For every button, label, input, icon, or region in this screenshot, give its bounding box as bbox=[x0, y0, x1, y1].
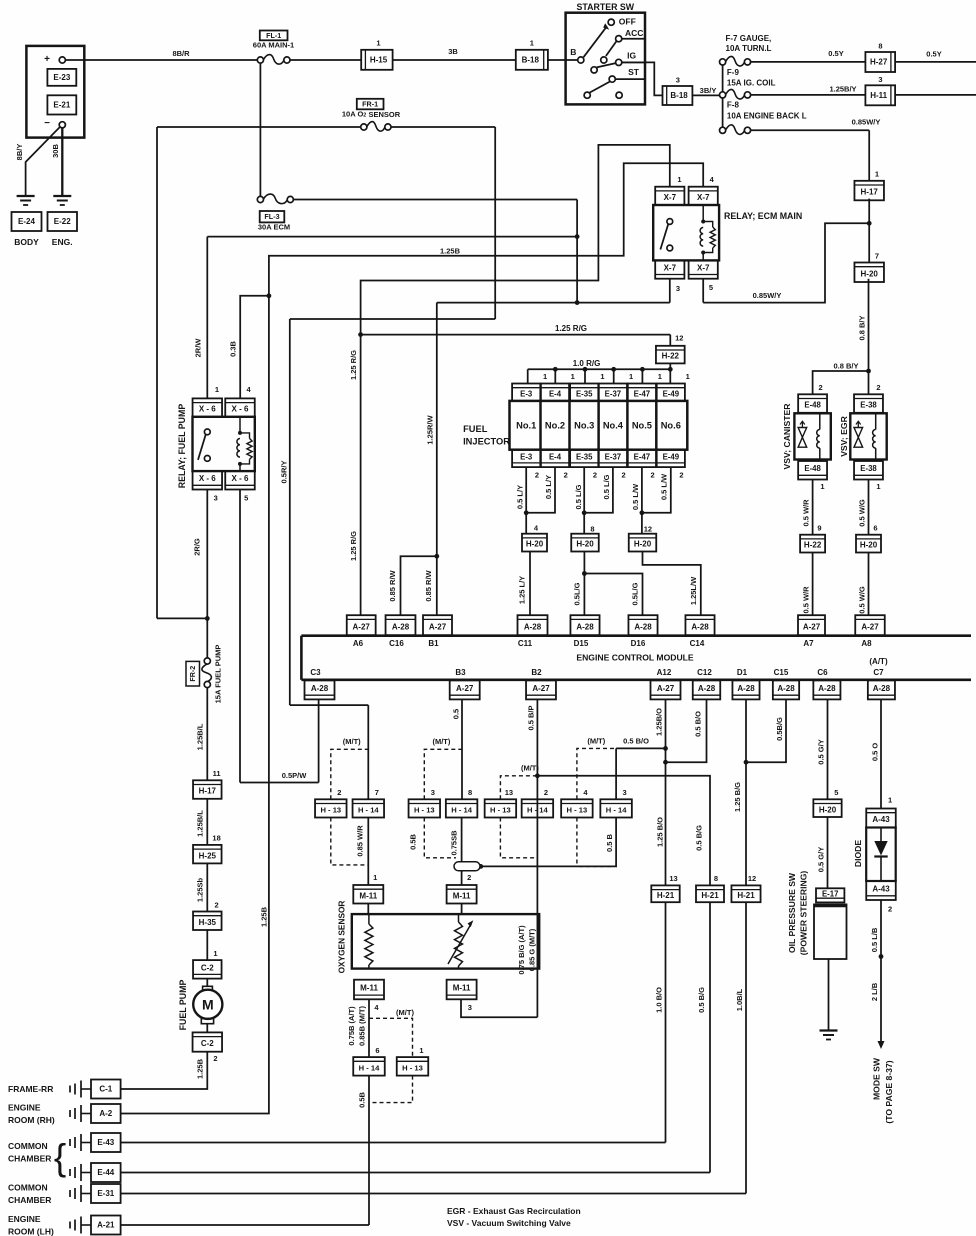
svg-text:FUEL: FUEL bbox=[463, 424, 488, 434]
svg-text:H-11: H-11 bbox=[870, 91, 887, 100]
svg-text:E-17: E-17 bbox=[822, 889, 838, 898]
svg-text:1.25B/L: 1.25B/L bbox=[195, 810, 204, 837]
svg-text:A-43: A-43 bbox=[872, 815, 890, 824]
svg-text:DIODE: DIODE bbox=[853, 840, 863, 867]
svg-text:H-21: H-21 bbox=[737, 891, 755, 900]
svg-text:6: 6 bbox=[375, 1046, 379, 1055]
svg-text:0.5 B/G: 0.5 B/G bbox=[695, 825, 704, 851]
svg-text:(POWER STEERING): (POWER STEERING) bbox=[799, 871, 809, 956]
svg-text:F-9: F-9 bbox=[727, 68, 740, 77]
svg-text:E-48: E-48 bbox=[804, 401, 821, 410]
svg-text:0.85 G (M/T): 0.85 G (M/T) bbox=[527, 928, 536, 971]
svg-text:{: { bbox=[54, 1137, 66, 1178]
svg-text:INJECTOR: INJECTOR bbox=[463, 436, 510, 446]
svg-text:ST: ST bbox=[628, 67, 640, 77]
svg-text:H - 14: H - 14 bbox=[606, 806, 627, 815]
svg-text:7: 7 bbox=[875, 252, 879, 261]
svg-text:E-22: E-22 bbox=[54, 217, 71, 226]
svg-text:H-17: H-17 bbox=[861, 188, 879, 197]
svg-text:12: 12 bbox=[675, 334, 683, 343]
svg-text:H - 14: H - 14 bbox=[527, 806, 548, 815]
svg-text:H - 13: H - 13 bbox=[490, 806, 511, 815]
svg-text:+: + bbox=[44, 54, 50, 65]
svg-text:E-43: E-43 bbox=[97, 1138, 114, 1147]
svg-text:C7: C7 bbox=[873, 668, 884, 677]
svg-text:60A MAIN-1: 60A MAIN-1 bbox=[253, 41, 294, 50]
svg-text:A-27: A-27 bbox=[861, 622, 879, 631]
svg-text:E-49: E-49 bbox=[663, 389, 680, 398]
svg-text:2: 2 bbox=[593, 471, 597, 480]
svg-text:5: 5 bbox=[244, 493, 248, 502]
svg-text:C3: C3 bbox=[310, 668, 321, 677]
svg-text:COMMON: COMMON bbox=[8, 1141, 48, 1151]
svg-text:0.75SB: 0.75SB bbox=[450, 830, 459, 856]
svg-text:1.0 B/O: 1.0 B/O bbox=[655, 987, 664, 1013]
svg-text:0.5 W/G: 0.5 W/G bbox=[858, 586, 867, 614]
svg-text:B-18: B-18 bbox=[670, 91, 688, 100]
svg-text:1: 1 bbox=[629, 372, 633, 381]
svg-text:B3: B3 bbox=[455, 668, 466, 677]
svg-text:0.5 B: 0.5 B bbox=[605, 833, 614, 852]
svg-text:2: 2 bbox=[535, 471, 539, 480]
svg-text:6: 6 bbox=[873, 524, 877, 533]
svg-text:0.5 L/W: 0.5 L/W bbox=[631, 483, 640, 510]
svg-text:0.85B (M/T): 0.85B (M/T) bbox=[357, 1006, 366, 1047]
svg-text:No.4: No.4 bbox=[603, 420, 624, 430]
svg-text:ENG.: ENG. bbox=[52, 237, 73, 247]
svg-text:2: 2 bbox=[337, 788, 341, 797]
svg-text:0.85 W/R: 0.85 W/R bbox=[356, 825, 365, 857]
svg-text:3: 3 bbox=[676, 76, 680, 85]
svg-text:1.25 R/G: 1.25 R/G bbox=[349, 350, 358, 380]
svg-text:H-20: H-20 bbox=[526, 540, 544, 549]
svg-text:1: 1 bbox=[215, 385, 219, 394]
svg-text:H-21: H-21 bbox=[701, 891, 719, 900]
svg-text:7: 7 bbox=[375, 788, 379, 797]
svg-text:A-28: A-28 bbox=[873, 684, 891, 693]
svg-text:C11: C11 bbox=[518, 639, 533, 648]
svg-text:13: 13 bbox=[669, 874, 677, 883]
svg-text:(TO PAGE 8-37): (TO PAGE 8-37) bbox=[884, 1060, 894, 1123]
svg-text:12: 12 bbox=[748, 874, 756, 883]
svg-text:MODE SW: MODE SW bbox=[872, 1057, 882, 1100]
svg-text:1.25 L/Y: 1.25 L/Y bbox=[518, 576, 527, 604]
svg-text:H - 13: H - 13 bbox=[567, 806, 588, 815]
svg-text:8: 8 bbox=[590, 524, 594, 533]
svg-text:M: M bbox=[202, 997, 214, 1013]
svg-text:E-4: E-4 bbox=[549, 389, 562, 398]
svg-text:A-28: A-28 bbox=[576, 622, 594, 631]
svg-text:30B: 30B bbox=[51, 144, 60, 158]
svg-text:0.5B: 0.5B bbox=[358, 1091, 367, 1107]
svg-text:3: 3 bbox=[431, 788, 435, 797]
svg-text:A-27: A-27 bbox=[532, 684, 550, 693]
svg-text:E-48: E-48 bbox=[804, 464, 821, 473]
svg-text:B1: B1 bbox=[428, 639, 439, 648]
svg-text:5: 5 bbox=[709, 283, 713, 292]
svg-text:E-37: E-37 bbox=[605, 452, 621, 461]
svg-text:0.5L/G: 0.5L/G bbox=[631, 582, 640, 605]
svg-text:0.5Y: 0.5Y bbox=[926, 50, 941, 59]
svg-text:H-21: H-21 bbox=[657, 891, 675, 900]
svg-text:0.5 B/P: 0.5 B/P bbox=[527, 705, 536, 730]
svg-text:A-28: A-28 bbox=[311, 684, 329, 693]
svg-text:FL-3: FL-3 bbox=[264, 212, 279, 221]
svg-text:11: 11 bbox=[213, 769, 221, 778]
svg-text:E-24: E-24 bbox=[18, 217, 35, 226]
svg-text:5: 5 bbox=[834, 788, 838, 797]
svg-text:C-1: C-1 bbox=[99, 1085, 112, 1094]
svg-text:H - 13: H - 13 bbox=[414, 806, 435, 815]
svg-text:1: 1 bbox=[875, 170, 879, 179]
svg-text:A-21: A-21 bbox=[97, 1221, 115, 1230]
svg-text:8: 8 bbox=[878, 42, 882, 51]
svg-text:OFF: OFF bbox=[619, 16, 636, 26]
svg-text:H-22: H-22 bbox=[662, 352, 680, 361]
svg-text:IG: IG bbox=[627, 51, 636, 61]
svg-text:A-43: A-43 bbox=[872, 884, 890, 893]
svg-text:2: 2 bbox=[679, 471, 683, 480]
svg-text:B-18: B-18 bbox=[522, 55, 540, 64]
svg-text:1.25B/L: 1.25B/L bbox=[195, 723, 204, 750]
svg-text:M-11: M-11 bbox=[453, 891, 471, 900]
svg-text:RELAY; FUEL PUMP: RELAY; FUEL PUMP bbox=[177, 404, 187, 489]
svg-text:0.5 G/Y: 0.5 G/Y bbox=[816, 847, 825, 872]
svg-text:2: 2 bbox=[876, 383, 880, 392]
svg-text:A-28: A-28 bbox=[691, 622, 709, 631]
svg-text:0.5 B/G: 0.5 B/G bbox=[697, 987, 706, 1013]
svg-text:M-11: M-11 bbox=[360, 983, 378, 992]
svg-text:0.5R/Y: 0.5R/Y bbox=[280, 461, 289, 484]
svg-text:A7: A7 bbox=[803, 639, 814, 648]
svg-text:0.5 O: 0.5 O bbox=[870, 743, 879, 762]
svg-text:0.5 L/W: 0.5 L/W bbox=[660, 473, 669, 500]
svg-text:H - 13: H - 13 bbox=[402, 1063, 423, 1072]
svg-text:2: 2 bbox=[544, 788, 548, 797]
svg-text:1.25B/Y: 1.25B/Y bbox=[829, 84, 856, 93]
svg-text:A-27: A-27 bbox=[803, 622, 821, 631]
svg-text:C12: C12 bbox=[697, 668, 712, 677]
svg-text:EGR - Exhaust Gas Recirculatio: EGR - Exhaust Gas Recirculation bbox=[447, 1206, 581, 1216]
svg-text:15A IG. COIL: 15A IG. COIL bbox=[727, 79, 776, 88]
svg-text:E-3: E-3 bbox=[520, 389, 533, 398]
svg-text:(M/T): (M/T) bbox=[343, 737, 361, 746]
svg-text:E-31: E-31 bbox=[97, 1189, 114, 1198]
svg-text:0.5 W/G: 0.5 W/G bbox=[858, 499, 867, 527]
svg-text:18: 18 bbox=[212, 834, 220, 843]
svg-text:M-11: M-11 bbox=[359, 891, 377, 900]
svg-text:2: 2 bbox=[213, 1054, 217, 1063]
svg-text:0.3B: 0.3B bbox=[229, 340, 238, 356]
svg-text:1.25B: 1.25B bbox=[440, 247, 461, 256]
svg-text:D1: D1 bbox=[737, 668, 748, 677]
svg-text:STARTER SW: STARTER SW bbox=[577, 2, 635, 12]
svg-text:C-2: C-2 bbox=[201, 963, 214, 972]
svg-text:VSV - Vacuum Switching Valve: VSV - Vacuum Switching Valve bbox=[447, 1218, 571, 1228]
svg-text:0.5B: 0.5B bbox=[409, 833, 418, 849]
svg-text:0.5 B/O: 0.5 B/O bbox=[623, 737, 649, 746]
svg-text:3: 3 bbox=[468, 1003, 472, 1012]
svg-text:B: B bbox=[570, 47, 576, 57]
svg-text:X-7: X-7 bbox=[697, 193, 710, 202]
svg-text:H-27: H-27 bbox=[870, 58, 888, 67]
svg-text:OXYGEN SENSOR: OXYGEN SENSOR bbox=[337, 901, 347, 974]
svg-text:(M/T): (M/T) bbox=[587, 737, 605, 746]
svg-text:1.25B: 1.25B bbox=[195, 1058, 204, 1079]
svg-text:No.5: No.5 bbox=[632, 420, 652, 430]
svg-text:1.25B: 1.25B bbox=[260, 906, 269, 927]
svg-text:No.2: No.2 bbox=[545, 420, 565, 430]
svg-text:(M/T): (M/T) bbox=[521, 764, 539, 773]
svg-text:H - 14: H - 14 bbox=[359, 1063, 380, 1072]
svg-text:X - 6: X - 6 bbox=[199, 405, 216, 414]
svg-text:H-15: H-15 bbox=[370, 55, 388, 64]
svg-text:A-2: A-2 bbox=[99, 1109, 112, 1118]
svg-text:1.25B/O: 1.25B/O bbox=[655, 708, 664, 736]
svg-text:X-7: X-7 bbox=[697, 263, 710, 272]
svg-text:ENGINE CONTROL MODULE: ENGINE CONTROL MODULE bbox=[576, 653, 694, 663]
svg-text:8B/R: 8B/R bbox=[172, 49, 190, 58]
svg-text:X - 6: X - 6 bbox=[232, 405, 249, 414]
svg-text:H-20: H-20 bbox=[634, 540, 652, 549]
svg-text:0.5 B/O: 0.5 B/O bbox=[694, 711, 703, 737]
svg-text:8: 8 bbox=[468, 788, 472, 797]
svg-text:1.25R/W: 1.25R/W bbox=[426, 414, 435, 444]
svg-text:RELAY; ECM MAIN: RELAY; ECM MAIN bbox=[724, 211, 802, 221]
svg-text:No.6: No.6 bbox=[661, 420, 681, 430]
svg-text:2: 2 bbox=[467, 873, 471, 882]
svg-text:H-35: H-35 bbox=[199, 918, 217, 927]
svg-text:0.5 L/G: 0.5 L/G bbox=[602, 474, 611, 499]
svg-text:2R/W: 2R/W bbox=[194, 338, 203, 358]
svg-text:0.5 L/Y: 0.5 L/Y bbox=[544, 475, 553, 499]
svg-text:E-47: E-47 bbox=[634, 452, 650, 461]
svg-text:9: 9 bbox=[817, 524, 821, 533]
svg-text:0.5B/G: 0.5B/G bbox=[775, 717, 784, 741]
svg-text:1: 1 bbox=[820, 482, 824, 491]
svg-text:COMMON: COMMON bbox=[8, 1183, 48, 1193]
svg-text:FRAME-RR: FRAME-RR bbox=[8, 1084, 53, 1094]
svg-text:F-7 GAUGE,: F-7 GAUGE, bbox=[726, 34, 772, 43]
svg-text:10A TURN.L: 10A TURN.L bbox=[726, 44, 772, 53]
svg-text:FUEL PUMP: FUEL PUMP bbox=[178, 980, 188, 1031]
svg-text:C-2: C-2 bbox=[201, 1039, 214, 1048]
svg-text:A-27: A-27 bbox=[657, 684, 675, 693]
svg-text:3B: 3B bbox=[448, 47, 458, 56]
svg-text:0.5 G/Y: 0.5 G/Y bbox=[816, 739, 825, 764]
svg-text:(M/T): (M/T) bbox=[396, 1008, 414, 1017]
svg-text:E-3: E-3 bbox=[520, 452, 533, 461]
svg-text:0.75 B/G (A/T): 0.75 B/G (A/T) bbox=[517, 925, 526, 975]
svg-text:C6: C6 bbox=[817, 668, 828, 677]
svg-text:H-20: H-20 bbox=[861, 269, 879, 278]
svg-text:1.0 R/G: 1.0 R/G bbox=[573, 359, 601, 368]
svg-text:ROOM (LH): ROOM (LH) bbox=[8, 1227, 54, 1236]
svg-text:0.85 R/W: 0.85 R/W bbox=[424, 569, 433, 601]
svg-text:E-38: E-38 bbox=[860, 401, 877, 410]
svg-text:2: 2 bbox=[564, 471, 568, 480]
svg-text:A-28: A-28 bbox=[737, 684, 755, 693]
svg-text:10A O2 SENSOR: 10A O2 SENSOR bbox=[342, 109, 401, 118]
svg-text:1: 1 bbox=[213, 949, 217, 958]
svg-text:30A ECM: 30A ECM bbox=[258, 223, 290, 232]
svg-text:FR-1: FR-1 bbox=[362, 100, 378, 109]
svg-text:1: 1 bbox=[600, 372, 604, 381]
svg-text:0.5 W/R: 0.5 W/R bbox=[802, 586, 811, 614]
svg-text:No.3: No.3 bbox=[574, 420, 594, 430]
svg-text:A-28: A-28 bbox=[524, 622, 542, 631]
svg-text:A6: A6 bbox=[353, 639, 364, 648]
svg-text:ROOM (RH): ROOM (RH) bbox=[8, 1115, 55, 1125]
svg-text:1: 1 bbox=[876, 482, 880, 491]
svg-text:0.5 L/Y: 0.5 L/Y bbox=[515, 485, 524, 509]
svg-text:X-7: X-7 bbox=[664, 193, 677, 202]
svg-text:E-44: E-44 bbox=[97, 1168, 114, 1177]
svg-text:0.5L/G: 0.5L/G bbox=[573, 582, 582, 605]
svg-text:H - 13: H - 13 bbox=[320, 806, 341, 815]
svg-text:X-7: X-7 bbox=[664, 263, 677, 272]
svg-text:1: 1 bbox=[530, 39, 534, 48]
svg-text:(A/T): (A/T) bbox=[869, 657, 888, 666]
svg-text:0.5 L/B: 0.5 L/B bbox=[870, 927, 879, 952]
svg-text:1: 1 bbox=[419, 1046, 423, 1055]
svg-text:8: 8 bbox=[714, 874, 718, 883]
svg-text:H-22: H-22 bbox=[804, 541, 822, 550]
svg-text:1.25Sb: 1.25Sb bbox=[195, 877, 204, 902]
svg-text:H - 14: H - 14 bbox=[358, 806, 379, 815]
svg-text:H-25: H-25 bbox=[199, 851, 217, 860]
svg-text:E-4: E-4 bbox=[549, 452, 562, 461]
svg-text:2: 2 bbox=[622, 471, 626, 480]
svg-text:E-47: E-47 bbox=[634, 389, 650, 398]
svg-text:A-28: A-28 bbox=[392, 622, 410, 631]
svg-text:2: 2 bbox=[888, 904, 892, 913]
svg-text:0.85W/Y: 0.85W/Y bbox=[753, 291, 782, 300]
svg-text:1.25 R/G: 1.25 R/G bbox=[555, 324, 587, 333]
svg-text:0.5 W/R: 0.5 W/R bbox=[802, 499, 811, 527]
svg-text:E-35: E-35 bbox=[576, 452, 593, 461]
svg-text:(M/T): (M/T) bbox=[432, 737, 450, 746]
svg-text:ENGINE: ENGINE bbox=[8, 1103, 41, 1113]
svg-text:C15: C15 bbox=[774, 668, 789, 677]
svg-text:X - 6: X - 6 bbox=[232, 474, 249, 483]
svg-text:1.25L/W: 1.25L/W bbox=[689, 576, 698, 605]
svg-text:X - 6: X - 6 bbox=[199, 474, 216, 483]
svg-text:1: 1 bbox=[373, 873, 377, 882]
svg-text:3: 3 bbox=[623, 788, 627, 797]
svg-text:OIL PRESSURE SW: OIL PRESSURE SW bbox=[787, 872, 797, 953]
svg-text:E-37: E-37 bbox=[605, 389, 621, 398]
svg-text:A-28: A-28 bbox=[698, 684, 716, 693]
svg-text:A12: A12 bbox=[657, 668, 672, 677]
svg-text:−: − bbox=[44, 118, 50, 129]
svg-text:1: 1 bbox=[571, 372, 575, 381]
svg-text:0.5: 0.5 bbox=[452, 709, 461, 719]
svg-text:0.8 B/Y: 0.8 B/Y bbox=[858, 315, 867, 340]
svg-text:10A ENGINE BACK L: 10A ENGINE BACK L bbox=[727, 112, 807, 121]
svg-text:2: 2 bbox=[651, 471, 655, 480]
svg-text:1.25 R/G: 1.25 R/G bbox=[349, 531, 358, 561]
svg-text:1: 1 bbox=[543, 372, 547, 381]
svg-text:2 L/B: 2 L/B bbox=[870, 982, 879, 1001]
svg-text:0.75B (A/T): 0.75B (A/T) bbox=[347, 1006, 356, 1046]
svg-text:0.8 B/Y: 0.8 B/Y bbox=[833, 362, 858, 371]
svg-text:H - 14: H - 14 bbox=[451, 806, 472, 815]
svg-text:1: 1 bbox=[677, 175, 681, 184]
svg-text:0.5P/W: 0.5P/W bbox=[282, 771, 308, 780]
svg-text:0.85W/Y: 0.85W/Y bbox=[852, 117, 881, 126]
svg-text:F-8: F-8 bbox=[727, 101, 740, 110]
svg-text:CHAMBER: CHAMBER bbox=[8, 1154, 51, 1164]
svg-text:H-17: H-17 bbox=[199, 787, 217, 796]
svg-text:No.1: No.1 bbox=[516, 420, 536, 430]
svg-text:3B/Y: 3B/Y bbox=[700, 86, 717, 95]
svg-text:13: 13 bbox=[505, 788, 513, 797]
svg-text:A-28: A-28 bbox=[634, 622, 652, 631]
svg-text:1: 1 bbox=[686, 372, 690, 381]
svg-text:E-38: E-38 bbox=[860, 464, 877, 473]
svg-text:1: 1 bbox=[376, 39, 380, 48]
svg-text:BODY: BODY bbox=[14, 237, 39, 247]
svg-text:1: 1 bbox=[888, 795, 892, 804]
svg-text:0.5 L/G: 0.5 L/G bbox=[574, 484, 583, 509]
svg-text:E-49: E-49 bbox=[663, 452, 680, 461]
svg-text:CHAMBER: CHAMBER bbox=[8, 1195, 51, 1205]
svg-text:D16: D16 bbox=[631, 639, 646, 648]
svg-text:C14: C14 bbox=[690, 639, 705, 648]
svg-text:3: 3 bbox=[878, 75, 882, 84]
svg-text:D15: D15 bbox=[574, 639, 589, 648]
svg-text:A-27: A-27 bbox=[429, 622, 447, 631]
svg-text:FL-1: FL-1 bbox=[266, 31, 281, 40]
svg-text:3: 3 bbox=[214, 493, 218, 502]
svg-text:M-11: M-11 bbox=[453, 983, 471, 992]
svg-text:12: 12 bbox=[644, 524, 652, 533]
svg-text:1.0B/L: 1.0B/L bbox=[735, 988, 744, 1011]
svg-text:B2: B2 bbox=[531, 668, 542, 677]
svg-text:VSV; CANISTER: VSV; CANISTER bbox=[782, 403, 792, 470]
svg-text:1.25 B/O: 1.25 B/O bbox=[656, 817, 665, 847]
svg-text:8B/Y: 8B/Y bbox=[15, 144, 24, 161]
svg-text:E-23: E-23 bbox=[53, 73, 70, 82]
svg-text:FR-2: FR-2 bbox=[188, 666, 197, 682]
svg-text:H-20: H-20 bbox=[576, 540, 594, 549]
svg-text:A-27: A-27 bbox=[456, 684, 474, 693]
svg-text:H-20: H-20 bbox=[819, 805, 837, 814]
svg-text:2R/G: 2R/G bbox=[192, 538, 201, 556]
svg-text:ACC: ACC bbox=[625, 28, 643, 38]
svg-text:0.85 R/W: 0.85 R/W bbox=[388, 569, 397, 601]
svg-text:1: 1 bbox=[658, 372, 662, 381]
svg-text:A-28: A-28 bbox=[777, 684, 795, 693]
svg-text:15A FUEL PUMP: 15A FUEL PUMP bbox=[214, 645, 223, 704]
svg-text:A8: A8 bbox=[861, 639, 872, 648]
svg-text:E-35: E-35 bbox=[576, 389, 593, 398]
svg-text:A-27: A-27 bbox=[353, 622, 371, 631]
svg-text:1.25 B/G: 1.25 B/G bbox=[733, 782, 742, 812]
svg-text:2: 2 bbox=[819, 383, 823, 392]
svg-text:H-20: H-20 bbox=[860, 541, 878, 550]
svg-text:E-21: E-21 bbox=[53, 100, 70, 109]
svg-text:2: 2 bbox=[215, 900, 219, 909]
svg-text:C16: C16 bbox=[389, 639, 404, 648]
svg-text:VSV; EGR: VSV; EGR bbox=[839, 415, 849, 456]
svg-text:0.5Y: 0.5Y bbox=[828, 49, 843, 58]
svg-text:ENGINE: ENGINE bbox=[8, 1214, 41, 1224]
svg-text:A-28: A-28 bbox=[818, 684, 836, 693]
svg-text:3: 3 bbox=[676, 284, 680, 293]
